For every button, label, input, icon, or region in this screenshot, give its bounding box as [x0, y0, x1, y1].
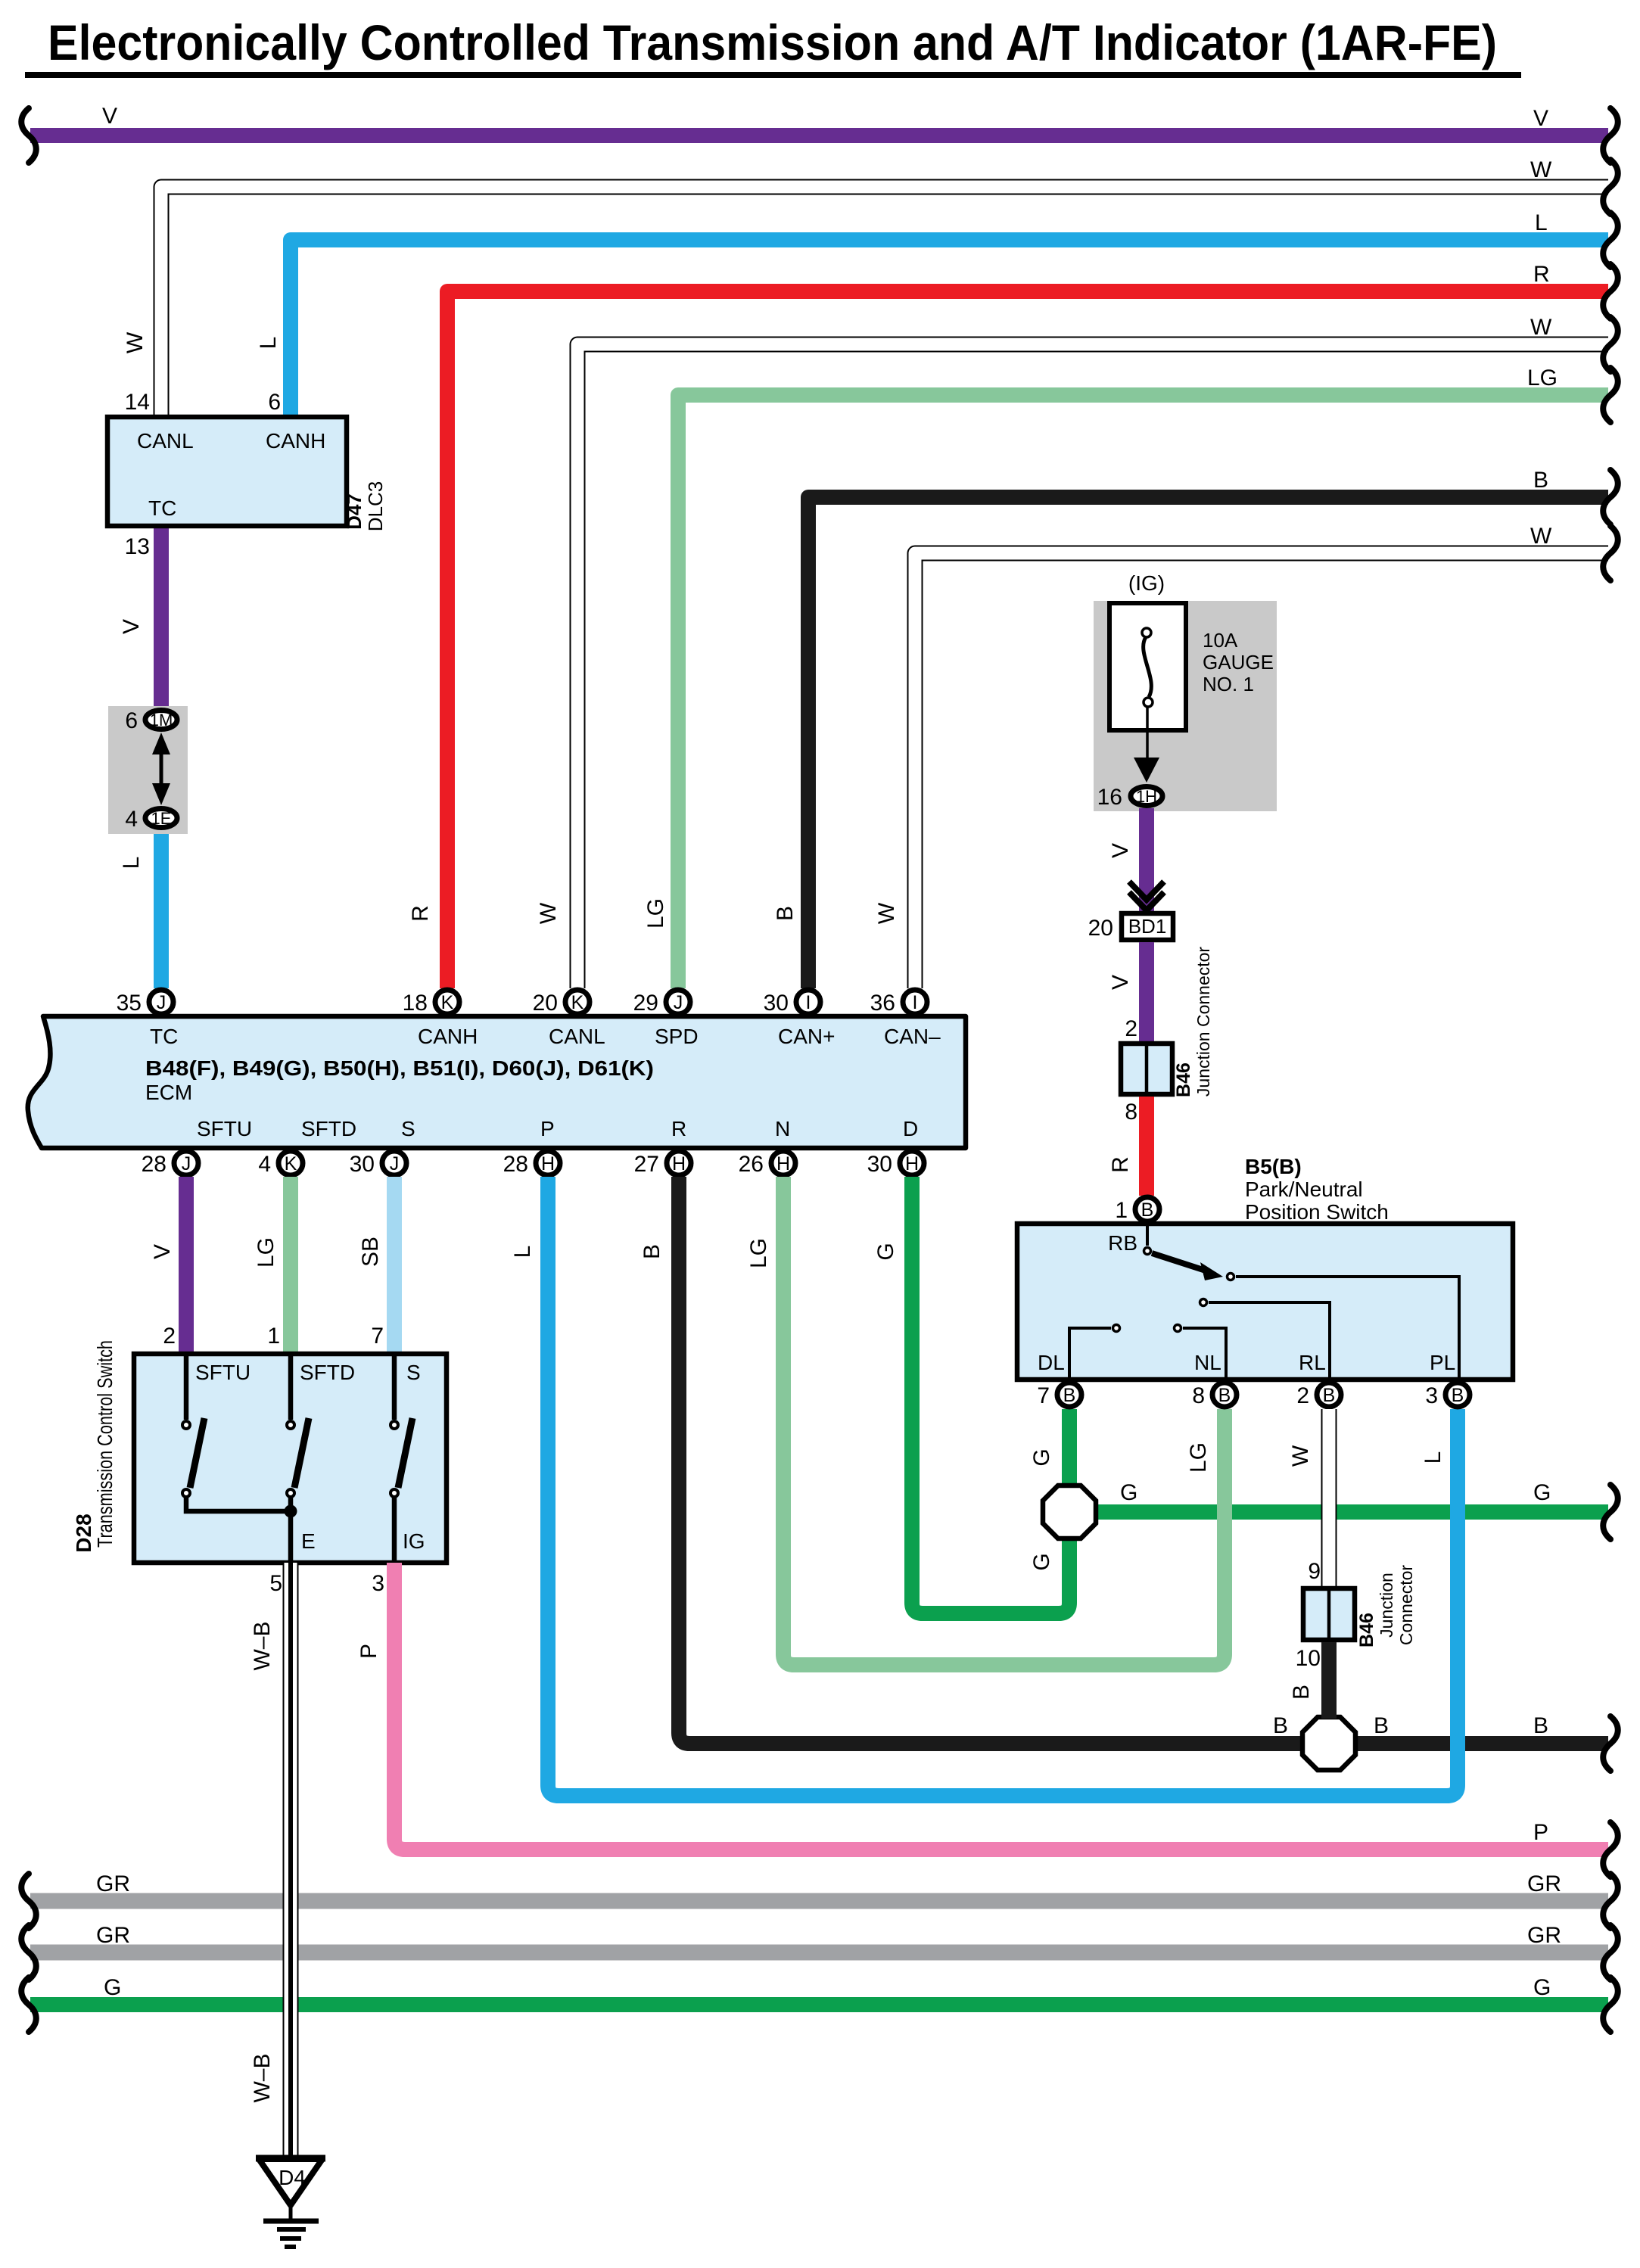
svg-text:GR: GR	[96, 1923, 130, 1948]
wire LG SPD ECM to right edge	[678, 395, 1608, 988]
svg-text:K: K	[441, 992, 454, 1013]
svg-text:1E: 1E	[151, 809, 172, 828]
svg-text:V: V	[1533, 106, 1548, 131]
pin 30 H (D)	[900, 1151, 924, 1175]
pin 7 B (DL)	[1057, 1383, 1081, 1407]
SFTD switch	[288, 1354, 294, 1420]
svg-text:B48(F), B49(G), B50(H), B51(I): B48(F), B49(G), B50(H), B51(I), D60(J), …	[145, 1056, 654, 1080]
svg-text:W–B: W–B	[250, 1621, 275, 1670]
wire W CANL ECM to right edge	[577, 344, 1608, 988]
svg-text:SPD: SPD	[655, 1025, 699, 1048]
svg-text:Electronically Controlled Tran: Electronically Controlled Transmission a…	[48, 14, 1497, 70]
svg-text:D4: D4	[279, 2166, 306, 2189]
svg-text:30: 30	[867, 1152, 892, 1177]
svg-text:B: B	[1141, 1199, 1154, 1221]
svg-text:S: S	[406, 1361, 421, 1384]
switch D28 Transmission Control Switch	[72, 1340, 447, 1563]
svg-text:W–B: W–B	[250, 2053, 275, 2102]
break squiggle right B2	[1603, 1716, 1618, 1771]
break squiggle right W1	[1603, 160, 1618, 214]
svg-text:8: 8	[1125, 1100, 1137, 1125]
wire GR2	[30, 1945, 1608, 1961]
svg-text:GR: GR	[1527, 1871, 1561, 1896]
break squiggle right GR1	[1603, 1874, 1618, 1928]
svg-text:G: G	[1533, 1480, 1551, 1505]
svg-text:V: V	[119, 619, 144, 634]
pin 30 I (CAN+)	[796, 990, 820, 1014]
svg-text:IG: IG	[403, 1529, 425, 1553]
break squiggle left GR2	[21, 1925, 36, 1980]
svg-text:SFTU: SFTU	[195, 1361, 251, 1384]
pin 1 B5	[1135, 1197, 1159, 1221]
svg-text:W: W	[536, 902, 561, 924]
svg-text:4: 4	[258, 1152, 271, 1177]
svg-text:H: H	[541, 1153, 555, 1174]
svg-text:30: 30	[764, 991, 789, 1016]
svg-text:H: H	[905, 1153, 919, 1174]
svg-text:Position Switch: Position Switch	[1245, 1200, 1389, 1224]
wire W B5 RL to B46-2	[1321, 1409, 1337, 1586]
pin 27 H (R)	[667, 1151, 691, 1175]
svg-text:G: G	[1120, 1480, 1137, 1505]
svg-text:V: V	[102, 104, 117, 129]
pin 28 J (SFTU)	[174, 1151, 198, 1175]
svg-text:I: I	[806, 992, 811, 1013]
svg-text:D28: D28	[72, 1514, 95, 1552]
svg-text:D: D	[903, 1117, 918, 1140]
octagon junction green	[1043, 1486, 1096, 1538]
break squiggle right W3	[1603, 526, 1618, 580]
svg-text:9: 9	[1308, 1559, 1321, 1584]
svg-text:P: P	[540, 1117, 555, 1140]
svg-text:CAN+: CAN+	[778, 1025, 835, 1048]
ECM bottom pins	[142, 1151, 924, 1177]
svg-text:K: K	[571, 992, 584, 1013]
svg-text:V: V	[150, 1244, 175, 1259]
SFTU switch	[184, 1354, 189, 1420]
wire L CANH DLC3 to right edge	[291, 240, 1608, 417]
wire SB ECM S to D28	[387, 1177, 402, 1354]
wire G octagon to right edge	[1069, 1504, 1608, 1520]
arrow between 1M and 1E	[160, 749, 163, 789]
svg-text:R: R	[1533, 262, 1550, 287]
svg-text:SB: SB	[358, 1237, 383, 1267]
break squiggle right R	[1603, 264, 1618, 319]
svg-text:N: N	[775, 1117, 790, 1140]
wire R CANH ECM to right edge	[447, 291, 1608, 988]
svg-text:6: 6	[125, 708, 138, 733]
svg-text:14: 14	[125, 390, 150, 415]
svg-text:J: J	[157, 992, 166, 1013]
wire B B46-2 to octagon	[1321, 1642, 1337, 1719]
svg-text:20: 20	[533, 991, 558, 1016]
B5 bottom pins	[1037, 1383, 1470, 1408]
svg-text:B: B	[1533, 468, 1548, 493]
svg-text:V: V	[1108, 975, 1133, 990]
break squiggle right P	[1603, 1822, 1618, 1877]
wire LG ECM SFTD to D28	[283, 1177, 298, 1354]
svg-text:4: 4	[125, 807, 138, 832]
wire G ECM D to octagon and B5 DL	[912, 1177, 1069, 1613]
svg-text:L: L	[1421, 1451, 1446, 1464]
svg-text:LG: LG	[1186, 1442, 1211, 1473]
svg-text:G: G	[1029, 1553, 1054, 1570]
junction connector B46-2	[1303, 1565, 1416, 1647]
svg-text:DL: DL	[1038, 1351, 1065, 1374]
svg-text:DLC3: DLC3	[364, 481, 387, 531]
break squiggle left V	[21, 108, 36, 163]
svg-text:GAUGE: GAUGE	[1203, 651, 1274, 674]
wire W CANL DLC3 to right edge	[161, 187, 1608, 417]
svg-text:RB: RB	[1108, 1231, 1137, 1255]
svg-text:J: J	[390, 1153, 400, 1174]
svg-text:36: 36	[870, 991, 895, 1016]
svg-text:2: 2	[163, 1324, 176, 1349]
pin 20 K (CANL)	[565, 990, 590, 1014]
svg-text:2: 2	[1296, 1383, 1309, 1408]
svg-text:10: 10	[1296, 1646, 1321, 1671]
svg-text:I: I	[913, 992, 918, 1013]
svg-text:GR: GR	[96, 1871, 130, 1896]
svg-text:Connector: Connector	[1396, 1565, 1416, 1645]
svg-text:B: B	[640, 1244, 664, 1259]
wire GR1	[30, 1893, 1608, 1909]
svg-text:7: 7	[1037, 1383, 1050, 1408]
svg-text:W: W	[1530, 157, 1552, 182]
svg-text:B46: B46	[1173, 1062, 1194, 1097]
svg-text:7: 7	[371, 1324, 384, 1349]
svg-text:W: W	[1288, 1445, 1313, 1467]
svg-text:GR: GR	[1527, 1923, 1561, 1948]
svg-text:S: S	[401, 1117, 415, 1140]
break squiggle right G2	[1603, 1977, 1618, 2032]
svg-text:30: 30	[350, 1152, 375, 1177]
svg-text:B: B	[1289, 1685, 1314, 1700]
junction connector B46	[1121, 947, 1213, 1097]
svg-text:L: L	[119, 857, 144, 870]
svg-text:L: L	[510, 1246, 535, 1258]
svg-text:R: R	[1108, 1156, 1133, 1173]
svg-text:Park/Neutral: Park/Neutral	[1245, 1178, 1363, 1201]
svg-text:LG: LG	[254, 1237, 279, 1268]
oval 1M	[145, 711, 177, 730]
svg-text:B5(B): B5(B)	[1245, 1155, 1302, 1178]
label B5(B) Park/Neutral Position Switch	[1245, 1155, 1389, 1224]
svg-text:G: G	[1533, 1975, 1551, 2000]
svg-text:26: 26	[739, 1152, 764, 1177]
wire V top horizontal	[30, 128, 1608, 143]
svg-text:H: H	[672, 1153, 686, 1174]
connector BD1	[1088, 913, 1173, 941]
title underline	[25, 72, 1521, 78]
pin 28 H (P)	[536, 1151, 560, 1175]
svg-text:B: B	[1533, 1713, 1548, 1738]
svg-text:B46: B46	[1356, 1613, 1377, 1647]
octagon junction black	[1302, 1717, 1355, 1770]
svg-text:PL: PL	[1430, 1351, 1455, 1374]
svg-text:28: 28	[503, 1152, 528, 1177]
connector 1M 1E grey block	[108, 706, 188, 834]
svg-text:27: 27	[634, 1152, 659, 1177]
ground D4	[256, 2158, 325, 2247]
svg-text:K: K	[285, 1153, 297, 1174]
double chevron	[1129, 882, 1164, 910]
svg-text:P: P	[356, 1644, 381, 1659]
svg-text:3: 3	[1425, 1383, 1438, 1408]
svg-text:Junction Connector: Junction Connector	[1193, 947, 1213, 1097]
wire R B46 to B5 pin1	[1139, 1097, 1154, 1196]
svg-text:P: P	[1533, 1820, 1548, 1845]
svg-text:28: 28	[142, 1152, 166, 1177]
break squiggle right W2	[1603, 317, 1618, 372]
svg-text:V: V	[1108, 843, 1133, 858]
svg-text:BD1: BD1	[1128, 915, 1167, 938]
arrow down to 1H	[1134, 758, 1159, 782]
svg-text:20: 20	[1088, 916, 1113, 941]
svg-text:10A: 10A	[1203, 629, 1238, 652]
S switch	[392, 1354, 397, 1420]
svg-text:CANH: CANH	[418, 1025, 478, 1048]
oval 1E	[145, 809, 177, 828]
wire B CAN+ ECM to right edge	[808, 497, 1608, 988]
svg-text:8: 8	[1192, 1383, 1205, 1408]
svg-text:J: J	[182, 1153, 191, 1174]
wire L connector 1E to ECM pin 35	[154, 829, 169, 988]
pin 30 J (S)	[382, 1151, 406, 1175]
svg-text:35: 35	[117, 991, 142, 1016]
svg-text:RL: RL	[1299, 1351, 1326, 1374]
connector D47 DLC3	[107, 417, 387, 531]
pin 29 J (SPD)	[666, 990, 690, 1014]
svg-text:J: J	[674, 992, 683, 1013]
pin 26 H (N)	[771, 1151, 795, 1175]
svg-text:H: H	[776, 1153, 790, 1174]
wire V ECM SFTU to D28	[179, 1177, 194, 1354]
break squiggle right G	[1603, 1485, 1618, 1539]
svg-text:CANL: CANL	[137, 429, 194, 453]
svg-text:Junction: Junction	[1377, 1573, 1396, 1638]
wire V DLC3 TC to connector 1M	[154, 526, 169, 708]
break squiggle right B	[1603, 470, 1618, 524]
svg-text:3: 3	[372, 1571, 384, 1596]
svg-text:LG: LG	[643, 898, 668, 929]
pin 8 B (NL)	[1212, 1383, 1237, 1407]
switch arm with arrow	[1152, 1253, 1208, 1271]
svg-text:W: W	[1530, 315, 1552, 340]
break squiggle right L	[1603, 213, 1618, 267]
wire B ECM R to right edge through octagon	[679, 1177, 1608, 1744]
svg-text:SFTD: SFTD	[300, 1361, 355, 1384]
ECM top pins	[117, 990, 927, 1016]
svg-text:SFTD: SFTD	[301, 1117, 356, 1140]
svg-text:LG: LG	[1527, 366, 1558, 390]
svg-text:1H: 1H	[1136, 787, 1157, 806]
svg-text:13: 13	[125, 534, 150, 559]
svg-text:16: 16	[1097, 785, 1122, 810]
svg-text:LG: LG	[746, 1238, 771, 1268]
svg-text:2: 2	[1125, 1016, 1137, 1041]
pin 2 B (RL)	[1317, 1383, 1341, 1407]
switch B5 Park/Neutral Position Switch	[1017, 1224, 1513, 1380]
wire V 1H to BD1	[1139, 808, 1154, 913]
wire V BD1 to B46	[1139, 942, 1154, 1041]
svg-text:W: W	[874, 902, 899, 924]
svg-text:W: W	[123, 331, 148, 353]
wire LG ECM N to B5 NL	[783, 1177, 1225, 1665]
svg-text:CANH: CANH	[266, 429, 325, 453]
svg-text:R: R	[408, 905, 433, 922]
svg-text:G: G	[873, 1243, 898, 1260]
svg-text:L: L	[256, 337, 281, 350]
wire W-B D28 E to ground D4	[283, 1563, 299, 2158]
svg-text:18: 18	[403, 991, 428, 1016]
svg-text:6: 6	[268, 390, 281, 415]
svg-text:G: G	[104, 1975, 121, 2000]
svg-text:29: 29	[633, 991, 658, 1016]
junction dot	[285, 1505, 297, 1518]
svg-text:G: G	[1029, 1448, 1054, 1466]
svg-text:CAN–: CAN–	[884, 1025, 941, 1048]
ECM block	[28, 1016, 966, 1148]
wire G bottom	[30, 1997, 1608, 2012]
wire W CAN- ECM to right edge	[915, 553, 1608, 988]
svg-text:B: B	[773, 906, 798, 921]
break squiggle right V	[1603, 108, 1618, 163]
svg-text:NL: NL	[1194, 1351, 1221, 1374]
svg-text:ECM: ECM	[145, 1081, 192, 1104]
pin 3 B (PL)	[1446, 1383, 1470, 1407]
svg-text:B: B	[1218, 1385, 1231, 1406]
wire P D28 IG to right edge	[394, 1563, 1608, 1850]
svg-text:1: 1	[1115, 1198, 1128, 1223]
break squiggle left GR1	[21, 1874, 36, 1928]
svg-text:L: L	[1535, 210, 1548, 235]
fuse 10A GAUGE NO.1	[1109, 603, 1186, 730]
svg-text:TC: TC	[150, 1025, 178, 1048]
break squiggle right LG	[1603, 368, 1618, 422]
svg-text:Transmission Control Switch: Transmission Control Switch	[93, 1340, 117, 1548]
svg-text:TC: TC	[148, 496, 176, 520]
svg-text:R: R	[671, 1117, 686, 1140]
break squiggle left G	[21, 1977, 36, 2032]
wire L ECM P to B5 PL	[548, 1177, 1458, 1796]
pin 4 K (SFTD)	[279, 1151, 303, 1175]
svg-text:(IG): (IG)	[1128, 571, 1165, 595]
svg-text:NO. 1: NO. 1	[1203, 673, 1254, 695]
svg-text:D47: D47	[343, 493, 366, 530]
svg-text:W: W	[1530, 524, 1552, 549]
break squiggle right GR2	[1603, 1925, 1618, 1980]
svg-text:SFTU: SFTU	[197, 1117, 252, 1140]
svg-text:CANL: CANL	[549, 1025, 605, 1048]
fuse block grey area	[1094, 571, 1277, 811]
svg-text:B: B	[1374, 1713, 1389, 1738]
svg-text:B: B	[1063, 1385, 1076, 1406]
svg-text:5: 5	[269, 1571, 282, 1596]
pin 35 J (TC)	[149, 990, 173, 1014]
svg-text:1: 1	[267, 1324, 280, 1349]
svg-text:1M: 1M	[150, 711, 173, 730]
pin 18 K (CANH)	[435, 990, 459, 1014]
pin 36 I (CAN-)	[903, 990, 927, 1014]
svg-text:B: B	[1452, 1385, 1464, 1406]
svg-text:B: B	[1273, 1713, 1288, 1738]
oval 1H	[1131, 787, 1162, 806]
svg-text:E: E	[301, 1529, 316, 1553]
svg-text:B: B	[1323, 1385, 1336, 1406]
